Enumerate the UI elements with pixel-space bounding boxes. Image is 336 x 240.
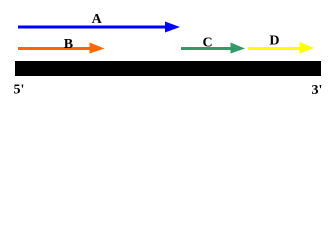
template DNA strand (black bar) xyxy=(15,61,321,76)
svg-text:A: A xyxy=(92,12,103,27)
svg-text:5': 5' xyxy=(14,82,25,97)
arrow D (yellow primer) xyxy=(248,42,314,54)
svg-text:B: B xyxy=(64,37,73,52)
svg-text:D: D xyxy=(269,34,279,49)
arrow B (orange primer) xyxy=(18,43,105,54)
svg-text:C: C xyxy=(203,35,213,50)
arrow A (blue primer) xyxy=(18,22,180,33)
svg-text:3': 3' xyxy=(312,83,323,98)
arrow C (green primer) xyxy=(181,43,245,54)
